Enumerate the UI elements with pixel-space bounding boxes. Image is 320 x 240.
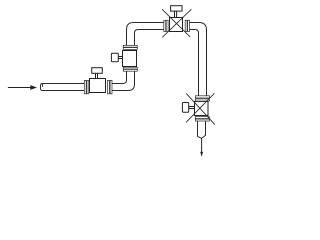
valve V4 bottom flange pair	[195, 117, 209, 121]
valve V4 handwheel	[182, 103, 188, 113]
pipe segment between valve V1 and riser elbow	[111, 70, 135, 90]
valve V4 handwheel stem	[189, 107, 195, 109]
valve V1 left flange pair	[84, 80, 89, 93]
pipe segment inlet run	[41, 84, 86, 91]
pipe segment outlet below valve V4	[198, 120, 206, 138]
pipe segment top run right of valve V3 with down elbow	[188, 23, 207, 96]
inlet flow arrow	[8, 85, 37, 90]
valve V2 handwheel stem	[119, 57, 123, 59]
pipe segment riser above valve V2 with elbow to top run	[127, 23, 165, 46]
valve V1 actuator	[92, 68, 103, 74]
valve V1 actuator stem	[96, 73, 98, 78]
valve V1 right flange pair	[108, 80, 113, 93]
valve V3 left flange pair	[164, 20, 168, 31]
valve V3 actuator	[171, 6, 182, 11]
valve V2 bottom flange pair	[123, 67, 137, 71]
valve V4 top flange pair	[195, 96, 209, 101]
valve V4 cross-out X	[186, 93, 215, 124]
valve V3 cross-out X	[162, 9, 191, 37]
valve V2 handwheel	[111, 53, 118, 62]
valve V3 right flange pair	[185, 20, 189, 31]
valve V3 body	[170, 18, 183, 32]
valve V1 body	[90, 79, 106, 93]
valve V2 top flange pair	[123, 45, 137, 49]
valve V2 body	[123, 51, 137, 67]
outlet flow arrow	[200, 138, 203, 157]
valve V3 actuator stem	[175, 11, 177, 17]
valve V4 body	[195, 101, 209, 115]
